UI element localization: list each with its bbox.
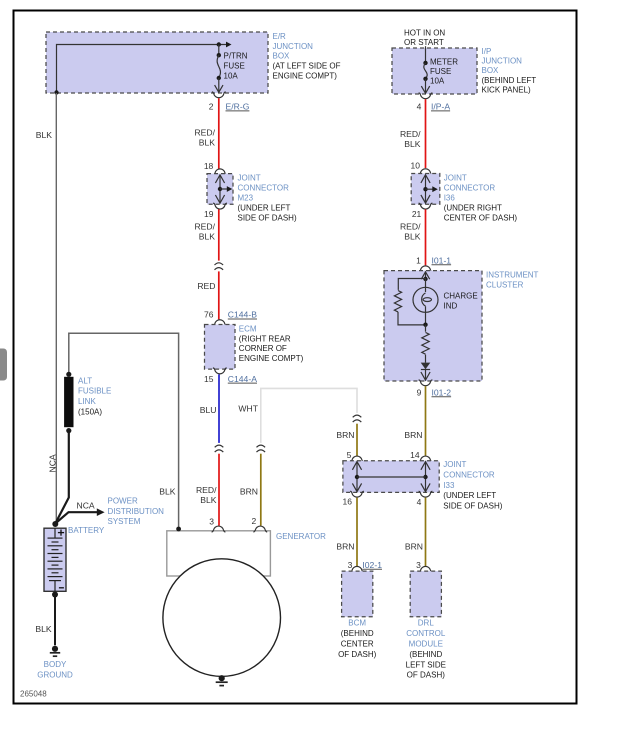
svg-text:NCA: NCA [47, 454, 57, 472]
svg-text:(BEHIND: (BEHIND [409, 650, 442, 659]
svg-text:HOT IN ON: HOT IN ON [404, 28, 445, 37]
svg-text:CHARGE: CHARGE [444, 292, 478, 301]
svg-text:4: 4 [417, 102, 422, 112]
svg-text:BODY: BODY [44, 660, 67, 669]
svg-text:(UNDER LEFT: (UNDER LEFT [238, 203, 291, 212]
svg-text:9: 9 [417, 388, 422, 398]
svg-text:BLK: BLK [200, 495, 217, 505]
svg-text:JOINT: JOINT [238, 174, 261, 183]
svg-text:POWER: POWER [108, 496, 138, 505]
svg-text:DISTRIBUTION: DISTRIBUTION [108, 507, 165, 516]
svg-text:10A: 10A [224, 72, 239, 81]
svg-text:WHT: WHT [238, 404, 258, 414]
svg-text:RED/: RED/ [194, 222, 215, 232]
svg-text:(150A): (150A) [78, 408, 102, 417]
svg-text:METER: METER [430, 57, 458, 66]
svg-text:JOINT: JOINT [443, 460, 466, 469]
svg-text:(BEHIND LEFT: (BEHIND LEFT [482, 76, 537, 85]
svg-text:5: 5 [347, 450, 352, 460]
svg-text:IND: IND [444, 302, 458, 311]
svg-text:INSTRUMENT: INSTRUMENT [486, 270, 539, 279]
svg-text:GROUND: GROUND [37, 670, 73, 679]
svg-text:BOX: BOX [482, 66, 500, 75]
svg-text:ECM: ECM [239, 325, 257, 334]
svg-text:JUNCTION: JUNCTION [273, 42, 314, 51]
svg-text:16: 16 [343, 496, 353, 506]
svg-text:I/P: I/P [482, 47, 492, 56]
svg-text:I36: I36 [444, 194, 456, 203]
svg-text:BLK: BLK [404, 232, 421, 242]
svg-text:BRN: BRN [240, 487, 258, 497]
svg-text:JUNCTION: JUNCTION [482, 57, 523, 66]
svg-text:OR START: OR START [404, 38, 444, 47]
svg-text:4: 4 [417, 497, 422, 507]
svg-text:LINK: LINK [78, 397, 96, 406]
svg-text:RED: RED [197, 281, 215, 291]
svg-text:ALT: ALT [78, 376, 92, 385]
svg-text:FUSE: FUSE [430, 67, 451, 76]
svg-text:RED/: RED/ [400, 129, 421, 139]
svg-text:BRN: BRN [405, 542, 423, 552]
svg-text:E/R-G: E/R-G [226, 102, 250, 112]
svg-text:CLUSTER: CLUSTER [486, 281, 524, 290]
svg-text:1: 1 [416, 255, 421, 265]
svg-text:2: 2 [209, 102, 214, 112]
svg-text:BCM: BCM [348, 619, 366, 628]
svg-text:E/R: E/R [273, 32, 287, 41]
svg-text:CONNECTOR: CONNECTOR [444, 184, 496, 193]
svg-text:BLK: BLK [199, 137, 216, 147]
svg-text:BLU: BLU [200, 405, 217, 415]
svg-text:I/P-A: I/P-A [431, 102, 450, 112]
svg-text:14: 14 [410, 450, 420, 460]
svg-text:RED/: RED/ [196, 485, 217, 495]
svg-text:I01-2: I01-2 [432, 388, 452, 398]
svg-text:2: 2 [251, 516, 256, 526]
svg-text:3: 3 [416, 560, 421, 570]
svg-text:10: 10 [411, 161, 421, 171]
svg-text:I01-1: I01-1 [432, 255, 452, 265]
svg-text:BRN: BRN [336, 430, 354, 440]
svg-text:C144-A: C144-A [228, 374, 257, 384]
svg-text:76: 76 [204, 310, 214, 320]
svg-text:BLK: BLK [35, 624, 52, 634]
svg-text:M23: M23 [238, 194, 254, 203]
svg-text:BATTERY: BATTERY [68, 526, 105, 535]
svg-text:BLK: BLK [404, 139, 421, 149]
svg-text:P/TRN: P/TRN [224, 52, 248, 61]
svg-text:3: 3 [348, 560, 353, 570]
svg-text:I02-1: I02-1 [362, 560, 382, 570]
svg-text:BOX: BOX [273, 52, 291, 61]
svg-text:18: 18 [204, 161, 214, 171]
svg-text:I33: I33 [443, 481, 455, 490]
svg-text:FUSE: FUSE [224, 62, 245, 71]
svg-text:SYSTEM: SYSTEM [108, 517, 141, 526]
svg-text:RED/: RED/ [194, 127, 215, 137]
svg-text:10A: 10A [430, 76, 445, 85]
svg-text:CONNECTOR: CONNECTOR [443, 470, 495, 479]
svg-text:C144-B: C144-B [228, 310, 257, 320]
svg-text:ENGINE COMPT): ENGINE COMPT) [239, 354, 304, 363]
svg-text:ENGINE COMPT): ENGINE COMPT) [273, 71, 338, 80]
svg-text:BLK: BLK [199, 232, 216, 242]
svg-text:SIDE OF DASH): SIDE OF DASH) [238, 213, 297, 222]
svg-text:FUSIBLE: FUSIBLE [78, 387, 111, 396]
svg-text:CONTROL: CONTROL [406, 629, 446, 638]
svg-text:(RIGHT REAR: (RIGHT REAR [239, 334, 291, 343]
svg-text:NCA: NCA [77, 500, 95, 510]
svg-text:BLK: BLK [159, 486, 176, 496]
svg-text:3: 3 [209, 516, 214, 526]
svg-text:265048: 265048 [20, 689, 47, 698]
svg-text:BRN: BRN [336, 542, 354, 552]
svg-text:(UNDER RIGHT: (UNDER RIGHT [444, 203, 502, 212]
svg-text:LEFT SIDE: LEFT SIDE [406, 660, 446, 669]
svg-text:21: 21 [412, 209, 422, 219]
svg-text:15: 15 [204, 374, 214, 384]
svg-text:SIDE OF DASH): SIDE OF DASH) [443, 502, 502, 511]
svg-text:OF DASH): OF DASH) [407, 671, 446, 680]
svg-text:CORNER OF: CORNER OF [239, 344, 287, 353]
svg-text:DRL: DRL [418, 619, 435, 628]
svg-text:(AT LEFT SIDE OF: (AT LEFT SIDE OF [273, 62, 341, 71]
svg-text:KICK PANEL): KICK PANEL) [482, 85, 532, 94]
svg-text:BLK: BLK [36, 130, 53, 140]
svg-text:RED/: RED/ [400, 222, 421, 232]
svg-text:CENTER: CENTER [341, 640, 374, 649]
svg-text:CENTER OF DASH): CENTER OF DASH) [444, 213, 518, 222]
svg-text:GENERATOR: GENERATOR [276, 532, 326, 541]
svg-text:(UNDER LEFT: (UNDER LEFT [443, 491, 496, 500]
svg-text:19: 19 [204, 209, 214, 219]
svg-text:OF DASH): OF DASH) [338, 650, 377, 659]
svg-text:JOINT: JOINT [444, 174, 467, 183]
svg-text:BRN: BRN [404, 430, 422, 440]
svg-text:(BEHIND: (BEHIND [341, 629, 374, 638]
svg-text:MODULE: MODULE [409, 640, 443, 649]
svg-text:CONNECTOR: CONNECTOR [238, 184, 290, 193]
